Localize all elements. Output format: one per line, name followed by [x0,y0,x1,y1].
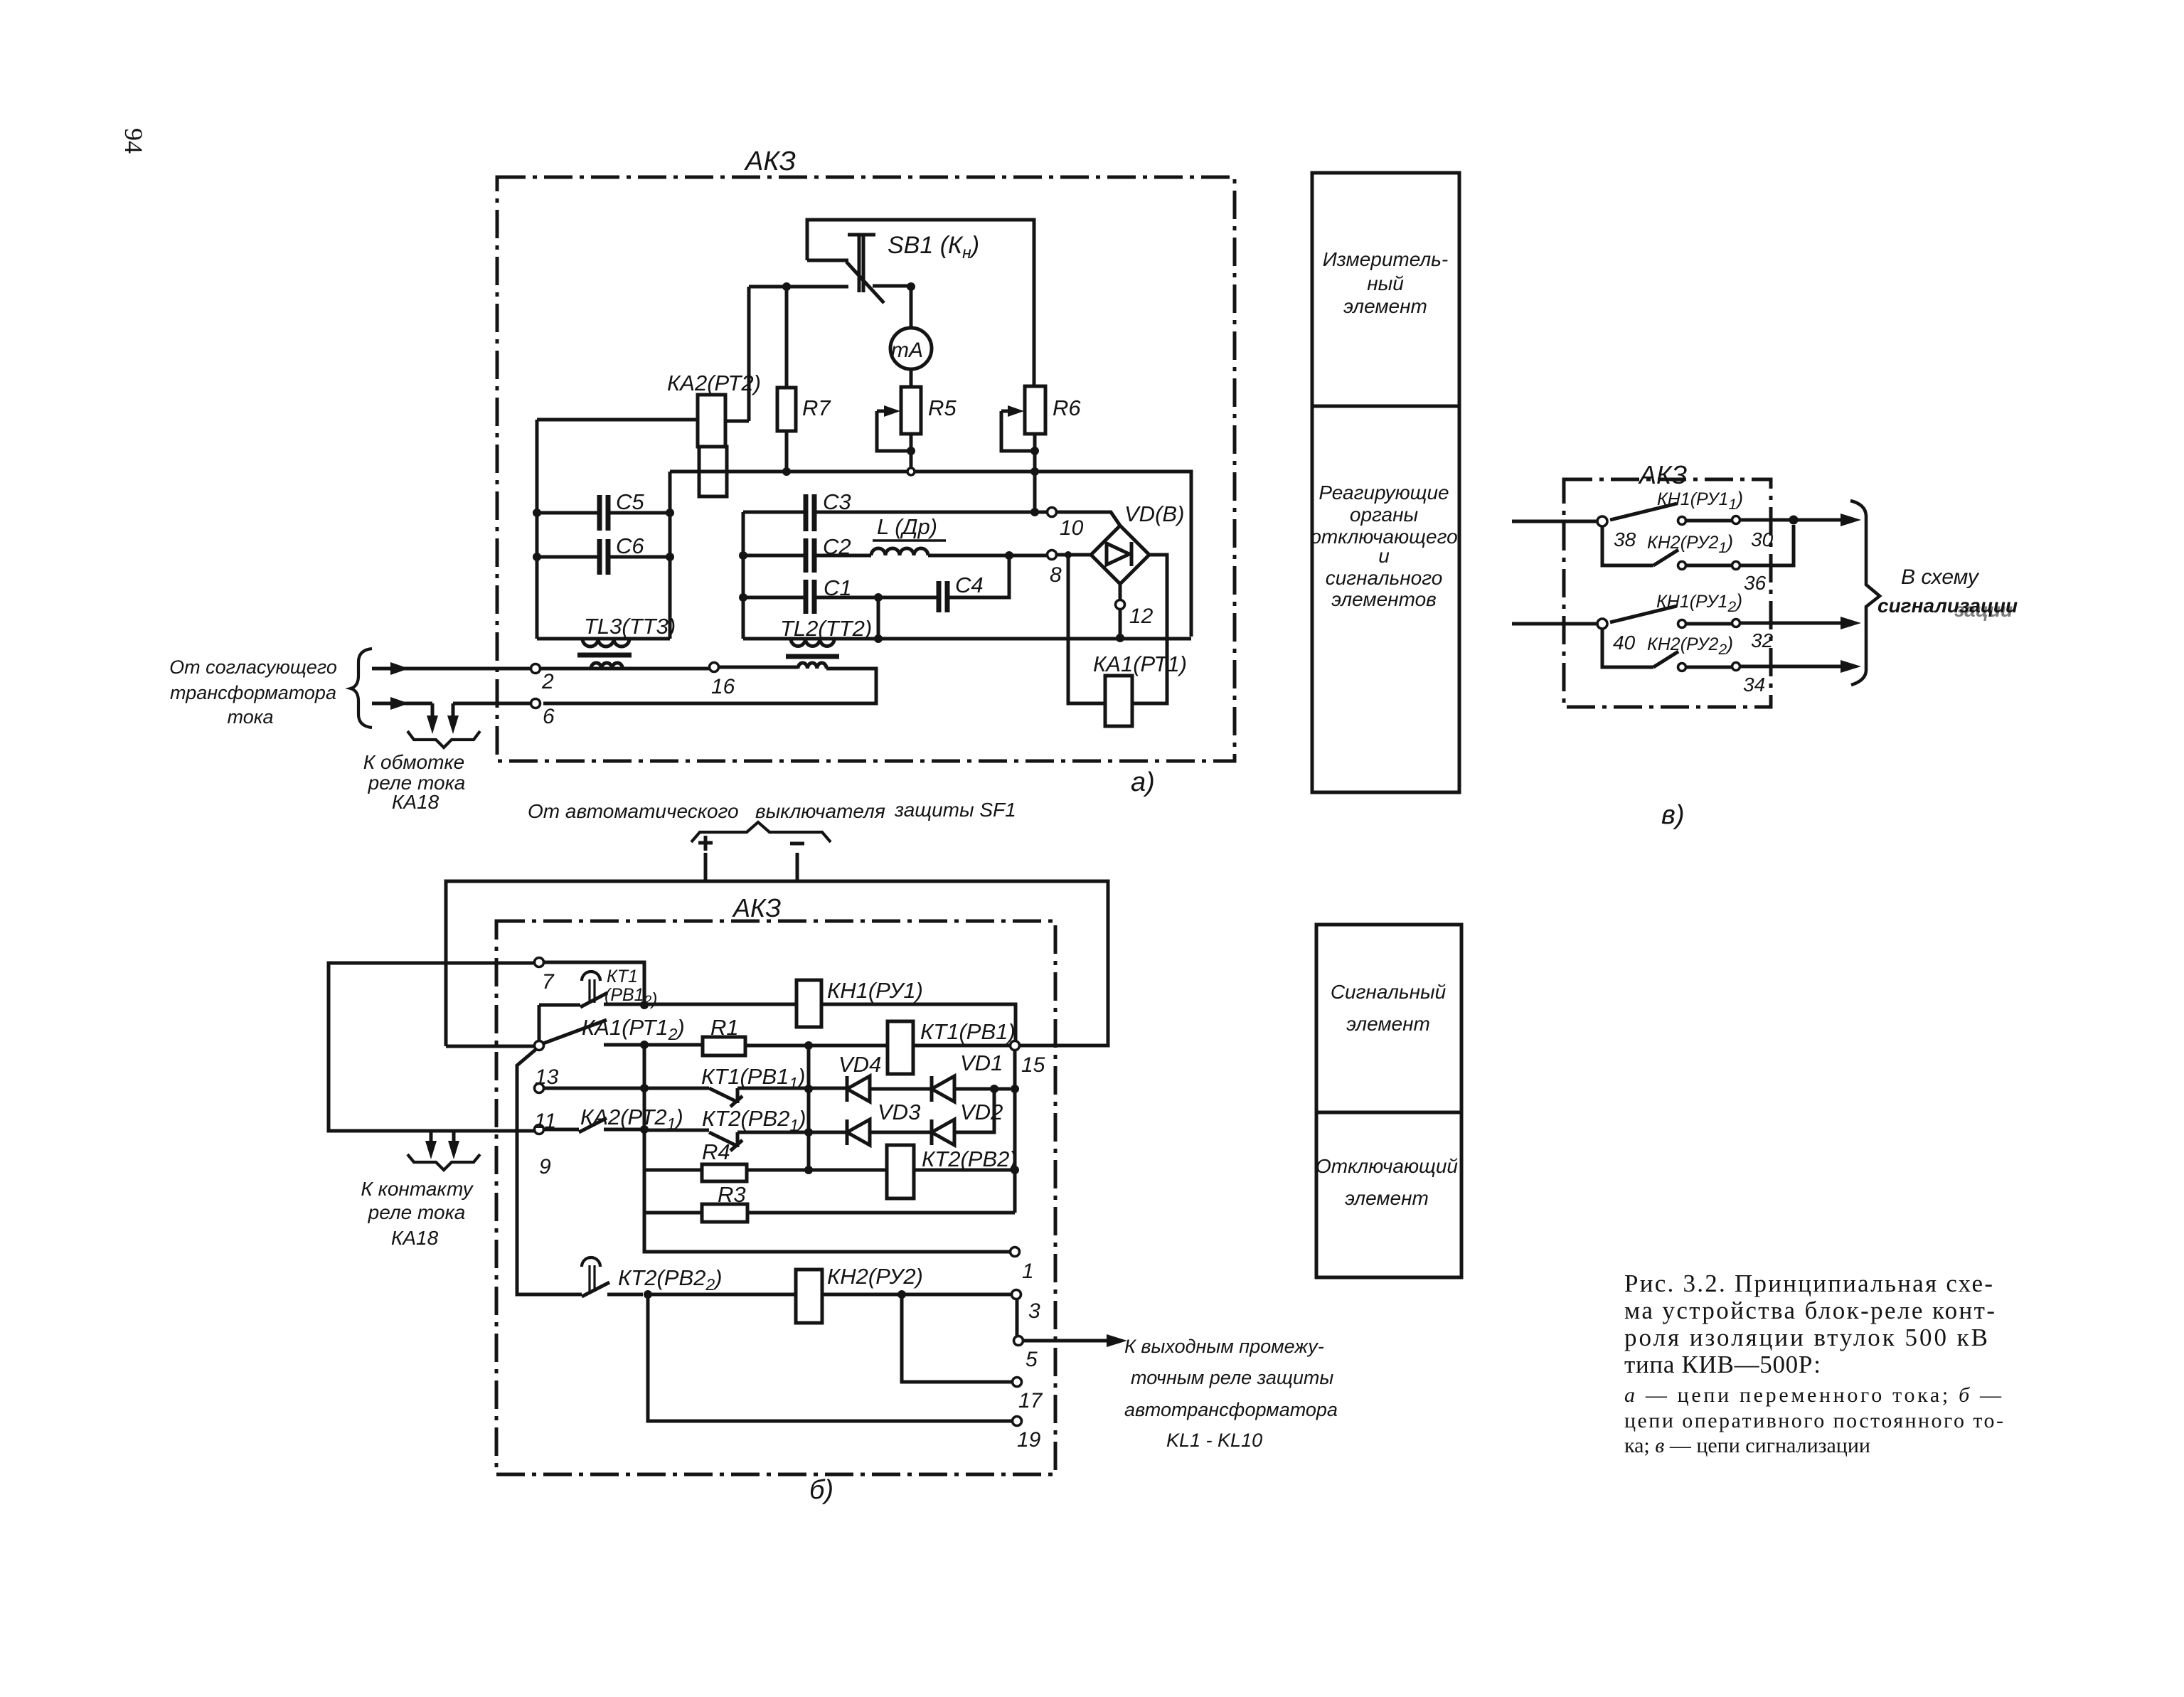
svg-text:сигнального: сигнального [1326,567,1443,589]
svg-text:6: 6 [543,705,555,728]
svg-text:VD2: VD2 [960,1100,1003,1124]
svg-text:R1: R1 [710,1015,739,1040]
svg-text:Реагирующие: Реагирующие [1319,482,1449,504]
svg-text:30: 30 [1751,528,1774,550]
svg-text:VD1: VD1 [960,1050,1003,1075]
svg-text:С6: С6 [616,533,644,558]
svg-text:К выходным промежу-: К выходным промежу- [1124,1336,1324,1357]
svg-text:ма устройства блок-реле кон: ма устройства блок-реле конт- [1624,1297,1995,1324]
svg-text:КА18: КА18 [391,1227,439,1249]
svg-text:9: 9 [539,1155,551,1179]
svg-text:Измеритель-: Измеритель- [1323,248,1448,270]
svg-text:трансформатора: трансформатора [170,682,336,703]
svg-text:элемент: элемент [1346,1013,1430,1035]
svg-text:органы: органы [1350,504,1419,526]
svg-text:АКЗ: АКЗ [732,893,781,922]
svg-text:2: 2 [541,670,554,693]
svg-text:12: 12 [1129,605,1154,628]
svg-text:К обмотке: К обмотке [363,751,465,773]
svg-text:R3: R3 [718,1182,746,1207]
svg-text:С4: С4 [955,573,984,597]
svg-text:тока: тока [228,706,274,728]
svg-text:выключателя: выключателя [755,800,885,822]
svg-text:АКЗ: АКЗ [1638,460,1687,489]
svg-text:3: 3 [1028,1299,1040,1323]
svg-text:R7: R7 [802,395,831,420]
svg-text:R6: R6 [1053,395,1081,420]
svg-text:ный: ный [1367,272,1404,294]
svg-text:TL3(ТТ3): TL3(ТТ3) [584,614,676,639]
svg-text:94: 94 [119,128,148,154]
svg-text:19: 19 [1017,1428,1041,1452]
svg-text:КН2(РУ2): КН2(РУ2) [827,1264,923,1289]
svg-text:8: 8 [1050,563,1062,587]
svg-text:КТ2(РВ2): КТ2(РВ2) [922,1147,1017,1171]
svg-text:С2: С2 [823,534,851,559]
svg-text:АКЗ: АКЗ [744,147,796,176]
svg-text:От согласующего: От согласующего [169,656,337,678]
svg-text:реле тока: реле тока [368,1201,466,1223]
svg-text:КА18: КА18 [392,791,440,813]
svg-text:1: 1 [1022,1260,1034,1283]
svg-text:КТ1: КТ1 [607,967,638,986]
svg-text:КА2(РТ2): КА2(РТ2) [667,371,761,395]
svg-text:КН1(РУ1): КН1(РУ1) [827,978,923,1003]
svg-text:в): в) [1661,800,1685,830]
svg-text:R4: R4 [702,1139,730,1164]
svg-text:КТ1(РВ1): КТ1(РВ1) [920,1019,1016,1044]
svg-text:VD4: VD4 [838,1052,881,1077]
svg-text:10: 10 [1060,516,1084,540]
svg-text:KL1 - KL10: KL1 - KL10 [1166,1430,1262,1451]
svg-text:34: 34 [1743,674,1765,696]
svg-text:36: 36 [1744,572,1767,594]
svg-text:точным реле защиты: точным реле защиты [1131,1367,1333,1388]
svg-text:элемент: элемент [1345,1187,1429,1209]
svg-text:С5: С5 [616,489,644,514]
svg-text:С3: С3 [823,489,851,514]
svg-text:б): б) [809,1475,833,1505]
svg-text:В схему: В схему [1901,565,1980,589]
svg-text:Сигнальный: Сигнальный [1331,981,1447,1003]
svg-text:32: 32 [1751,629,1774,651]
svg-text:R5: R5 [928,395,957,420]
svg-text:типа КИВ—500Р:: типа КИВ—500Р: [1624,1351,1821,1378]
svg-text:зации: зации [1954,599,2013,621]
svg-text:VD(B): VD(B) [1124,501,1184,526]
svg-text:ка; в — цепи сигнализации: ка; в — цепи сигнализации [1624,1434,1870,1457]
svg-text:13: 13 [535,1065,559,1089]
svg-text:40: 40 [1613,632,1636,654]
svg-text:mA: mA [891,339,923,362]
svg-text:элементов: элементов [1331,588,1437,610]
svg-text:16: 16 [711,675,735,698]
svg-text:КА1(РТ1): КА1(РТ1) [1093,651,1187,676]
svg-text:К контакту: К контакту [361,1178,474,1200]
svg-text:и: и [1378,545,1390,567]
svg-text:а — цепи переменного тока;: а — цепи переменного тока; б — [1624,1383,2002,1407]
svg-text:L (Др): L (Др) [877,514,937,539]
svg-text:VD3: VD3 [878,1100,920,1124]
svg-text:а): а) [1131,767,1155,797]
svg-text:11: 11 [534,1110,556,1133]
svg-text:17: 17 [1018,1389,1043,1413]
svg-text:Отключающий: Отключающий [1316,1155,1458,1177]
svg-text:15: 15 [1021,1053,1045,1077]
svg-text:С1: С1 [824,575,852,600]
svg-text:элемент: элемент [1343,295,1427,317]
svg-text:автотрансформатора: автотрансформатора [1124,1399,1338,1420]
svg-text:38: 38 [1614,528,1636,550]
svg-text:От автоматического: От автоматического [528,800,739,822]
svg-text:TL2(ТТ2): TL2(ТТ2) [780,616,872,641]
svg-text:7: 7 [542,970,555,994]
svg-text:защиты SF1: защиты SF1 [894,799,1016,821]
svg-text:5: 5 [1026,1348,1038,1371]
